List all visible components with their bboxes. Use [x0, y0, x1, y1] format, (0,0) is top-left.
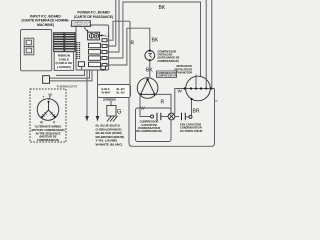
thermostat wire 1 [56, 70, 85, 75]
wire T3 up off top [109, 0, 119, 52]
svg-text:COMPRESSEUR): COMPRESSEUR) [158, 59, 179, 63]
wire T2 up off top [109, 0, 116, 46]
board terminal T4 [102, 57, 109, 60]
svg-text:W: W [178, 89, 183, 94]
board terminal T3 [102, 51, 109, 54]
L1 terminal arrow [100, 34, 109, 38]
fan capacitor terminal [189, 115, 192, 118]
svg-text:DE COMPRESSEUR): DE COMPRESSEUR) [136, 129, 162, 133]
svg-text:COMPRESSEUR: COMPRESSEUR [70, 23, 91, 27]
svg-text:BL-BU: BL-BU [117, 87, 125, 91]
overload caption [158, 50, 180, 63]
svg-text:BL-BU: BL-BU [117, 90, 125, 94]
svg-text:B-BLK: B-BLK [102, 87, 110, 91]
T-plug on board bottom [78, 62, 84, 71]
ground symbol [107, 116, 118, 122]
plug at board bottom centre [101, 66, 106, 71]
power supply wire arrow 1 [85, 71, 89, 122]
svg-text:L1: L1 [105, 34, 109, 38]
junction node [168, 113, 175, 120]
alternate motor [37, 96, 59, 125]
wire overload to compressor [149, 60, 151, 78]
ribbon cable label box [54, 52, 73, 71]
power supply cable label box [98, 85, 131, 98]
board terminal T5 [102, 64, 109, 67]
svg-text:R: R [161, 100, 165, 106]
wire compressor S to capacitor (W) [140, 98, 150, 117]
thermostat bulb [43, 76, 50, 84]
R loop wire from board around bottom to fan motor [129, 21, 131, 96]
compressor overload [145, 50, 155, 62]
ribbon cable block 2 [65, 33, 75, 52]
ground plug [107, 98, 122, 117]
compressor capacitor outline box [136, 108, 172, 142]
svg-text:FAN MOTOR: FAN MOTOR [176, 71, 192, 75]
fan wire vertical 1 [195, 75, 197, 89]
relay row 3 [89, 56, 101, 60]
wire compressor R to junction [155, 94, 171, 113]
wire T1 to R line [109, 21, 130, 40]
fan motor circle [184, 76, 215, 101]
relay row 4 [89, 62, 101, 66]
wire colour legend [96, 124, 125, 147]
svg-text:LIAISON): LIAISON) [57, 65, 71, 69]
input P.C. board box [21, 30, 52, 71]
fan capacitor caption [180, 122, 203, 132]
compressor capacitor caption [136, 120, 162, 134]
fan capacitor plates [182, 113, 186, 120]
svg-text:COMPRESSEUR): COMPRESSEUR) [37, 138, 59, 142]
svg-text:THERMOSTAT: THERMOSTAT [57, 84, 78, 88]
svg-text:W-WHITE (BLANC): W-WHITE (BLANC) [96, 143, 123, 147]
fan wire vertical 2 [205, 0, 207, 89]
relay row 2 [89, 50, 101, 54]
svg-text:BK: BK [159, 5, 166, 11]
green ground wire label [103, 98, 116, 102]
svg-text:BR: BR [193, 109, 200, 115]
svg-text:(GRN): (GRN) [103, 98, 111, 102]
compressor capacitor plates [157, 113, 161, 120]
svg-text:R: R [216, 99, 218, 103]
svg-text:DU VENTILATEUR: DU VENTILATEUR [180, 129, 203, 133]
svg-text:W: W [40, 121, 43, 125]
thermostat wire 2 / capillary top [50, 70, 90, 78]
compressor capacitor terminal [151, 115, 154, 118]
svg-text:W-WHT: W-WHT [102, 90, 112, 94]
compressor relay K1 [88, 32, 100, 40]
ribbon cable block 1 [54, 33, 64, 52]
wire T5 to overload [109, 28, 150, 65]
thermostat wire 3 / capillary bottom [50, 70, 93, 81]
svg-text:MACHINE): MACHINE) [37, 23, 54, 27]
wire plates to fan terminal [185, 116, 189, 118]
board terminal T2 [102, 45, 109, 48]
svg-text:BK: BK [152, 38, 159, 44]
input board header label [21, 14, 69, 27]
compressor relay label [70, 21, 91, 33]
alternate wiring dashed box [30, 89, 66, 142]
alternate wiring caption [32, 125, 65, 142]
power supply wire arrow 2 [96, 71, 100, 122]
wire plates to junction [161, 116, 168, 118]
svg-text:(CARTE DE PUISSANCE): (CARTE DE PUISSANCE) [74, 15, 113, 19]
fan W wire [175, 89, 184, 115]
compressor motor [137, 78, 158, 99]
svg-text:R: R [131, 41, 135, 47]
power P.C. board box [76, 25, 109, 70]
vertical text strip on power board [77, 42, 80, 59]
fan wire vertical 3 [211, 0, 213, 89]
wire T4 BK top wire [109, 2, 201, 89]
compressor label box [156, 71, 176, 78]
svg-text:G: G [117, 110, 122, 116]
wire junction to fan capacitor [175, 116, 179, 118]
power board header label [74, 11, 113, 19]
connector J1 on input board [24, 38, 34, 55]
board terminal T1 [102, 39, 109, 42]
wire fan terminal up to fan motor [191, 99, 193, 115]
svg-text:COMPRESSEUR: COMPRESSEUR [156, 74, 176, 78]
relay row 1 [89, 43, 101, 47]
fan motor caption [174, 64, 192, 74]
svg-text:BK: BK [112, 98, 116, 102]
